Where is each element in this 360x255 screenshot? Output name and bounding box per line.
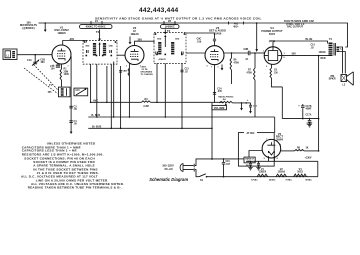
wire T2 to V2 grid xyxy=(117,54,125,56)
B+ vertical from rectifier to screen and T4 xyxy=(318,56,320,151)
svg-text:60~AC: 60~AC xyxy=(165,167,173,171)
on-off switch S1 xyxy=(199,174,206,177)
svg-text:.005: .005 xyxy=(217,91,222,93)
wire plug to rectifier xyxy=(195,159,238,166)
AC plug xyxy=(180,164,183,172)
svg-text:R8: R8 xyxy=(297,147,301,149)
svg-text:C15: C15 xyxy=(76,90,81,92)
svg-text:TO CHASSIS: TO CHASSIS xyxy=(141,73,154,76)
svg-text:470KΩ: 470KΩ xyxy=(159,58,166,61)
filter capacitor C17A 50MF xyxy=(309,119,311,121)
svg-text:7: 7 xyxy=(211,67,212,69)
svg-text:VOLUME: VOLUME xyxy=(214,107,225,110)
svg-text:+130V: +130V xyxy=(305,156,312,159)
svg-text:C14: C14 xyxy=(217,87,222,90)
V2 bottom leads xyxy=(107,62,129,129)
filter node line xyxy=(282,118,318,120)
svg-text:@455KC: @455KC xyxy=(165,26,175,29)
V4 cathode resistor R10 150 xyxy=(271,64,273,68)
svg-text:AT 90C: AT 90C xyxy=(246,132,254,135)
svg-text:470K: 470K xyxy=(234,61,240,64)
svg-text:3.2: 3.2 xyxy=(340,49,344,51)
svg-text:RADIO-PHONO: RADIO-PHONO xyxy=(218,95,233,98)
svg-text:C9B: C9B xyxy=(244,48,249,51)
tuning capacitor C1A xyxy=(34,55,36,62)
electrolytic on heater line 1 xyxy=(250,161,252,163)
svg-text:12BA6: 12BA6 xyxy=(277,170,285,173)
filter capacitor C17B 40MF xyxy=(302,108,304,118)
T2 tuning arrow xyxy=(99,45,101,57)
svg-text:.02: .02 xyxy=(185,71,189,73)
svg-text:(@800KC): (@800KC) xyxy=(22,26,34,30)
svg-text:2: 2 xyxy=(53,65,54,67)
capacitor C12 on T3 B+ lead xyxy=(181,70,184,72)
svg-text:2.2M: 2.2M xyxy=(143,105,148,108)
svg-text:442,443,444: 442,443,444 xyxy=(139,7,179,14)
screen bypass capacitor C6 xyxy=(119,71,122,73)
IF transformer T2 can xyxy=(83,41,117,65)
tube V5 xyxy=(262,139,281,158)
svg-text:40MF: 40MF xyxy=(306,108,312,111)
T2 terminals xyxy=(86,55,88,57)
svg-text:1K: 1K xyxy=(306,147,309,149)
grid resistor R7 470K xyxy=(254,52,256,54)
svg-text:34VAC: 34VAC xyxy=(269,179,276,182)
ground stub near switch line xyxy=(220,158,222,160)
IF transformer T3 can xyxy=(154,33,186,64)
wire V1 plate to T2 xyxy=(63,41,87,46)
arrow into V2 xyxy=(129,37,131,43)
svg-text:1: 1 xyxy=(284,53,286,55)
warm up resistor box xyxy=(244,157,255,163)
svg-text:T1: T1 xyxy=(49,84,53,87)
V4 screen wire to B+ xyxy=(282,55,319,57)
wire V2 plate to T3 xyxy=(135,41,155,45)
svg-text:C17B: C17B xyxy=(306,106,312,108)
svg-text:7: 7 xyxy=(68,66,69,68)
svg-text:4: 4 xyxy=(277,157,279,160)
V4 plate lead blue wire to T4 xyxy=(273,41,328,47)
wire T3 to V3 xyxy=(186,52,205,54)
svg-text:GND: GND xyxy=(109,46,114,48)
svg-text:GND: GND xyxy=(157,39,162,41)
svg-text:C8: C8 xyxy=(274,70,278,72)
wire V4 area down to filter node xyxy=(281,87,283,119)
svg-text:455: 455 xyxy=(48,91,53,94)
resistor R3 2.2M on AVC bus xyxy=(142,101,151,104)
svg-text:C17A: C17A xyxy=(306,114,312,117)
svg-text:7: 7 xyxy=(140,66,141,68)
T3 terminals xyxy=(156,54,158,56)
svg-text:.019: .019 xyxy=(197,40,202,43)
svg-text:SENSITIVITY AND STAGE GAINS AT: SENSITIVITY AND STAGE GAINS AT ½ WATT OU… xyxy=(95,16,262,20)
svg-text:R7: R7 xyxy=(248,70,252,72)
B- to rectifier box lead xyxy=(274,117,276,133)
heater V1 12BE6 xyxy=(257,174,268,177)
line capacitor C16 .047 xyxy=(223,158,225,160)
T3 internal capacitors xyxy=(156,52,158,55)
svg-text:R3: R3 xyxy=(144,98,148,101)
svg-text:50C5: 50C5 xyxy=(269,32,276,36)
svg-text:1300Ω: 1300Ω xyxy=(319,52,326,54)
volume control R4 xyxy=(220,101,233,103)
ground arrow below C4 xyxy=(70,128,72,133)
svg-text:T2: T2 xyxy=(96,30,100,34)
svg-text:85VAC: 85VAC xyxy=(305,179,312,182)
tube V3 xyxy=(205,46,224,65)
svg-text:C1A: C1A xyxy=(27,59,32,62)
svg-text:C16: C16 xyxy=(226,161,231,163)
heater supply line xyxy=(268,156,274,161)
svg-text:B+ BUS: B+ BUS xyxy=(92,125,102,128)
svg-text:104: 104 xyxy=(51,68,56,71)
svg-text:.01: .01 xyxy=(245,58,249,61)
svg-text:AVC: AVC xyxy=(93,100,98,103)
svg-text:.02: .02 xyxy=(311,47,315,49)
resistor R1 22M xyxy=(61,64,63,69)
svg-text:12BE6: 12BE6 xyxy=(57,31,66,35)
svg-text:260: 260 xyxy=(41,61,46,64)
svg-text:GND: GND xyxy=(175,39,180,41)
wire V1 cathode down xyxy=(70,56,72,128)
svg-text:50MF: 50MF xyxy=(307,123,313,125)
rectifier output resistor R8 xyxy=(281,150,295,152)
svg-text:12BA6: 12BA6 xyxy=(130,32,139,36)
thermal box around V5 xyxy=(238,133,274,167)
alignment box @455KC xyxy=(161,25,180,29)
T2 primary winding xyxy=(93,43,96,56)
wire plug to switch xyxy=(195,170,199,177)
svg-text:R6: R6 xyxy=(234,60,238,62)
svg-text:105-125V: 105-125V xyxy=(162,163,174,167)
B- bus xyxy=(88,116,274,118)
svg-text:L3: L3 xyxy=(343,85,346,87)
alignment box 600KC TO 455KC xyxy=(80,25,113,29)
wire antenna to V1 grid xyxy=(17,54,52,56)
svg-text:70VAC: 70VAC xyxy=(285,179,292,182)
T4 secondary leads to speaker xyxy=(339,47,345,74)
svg-text:1: 1 xyxy=(218,67,219,69)
svg-text:7: 7 xyxy=(263,51,264,53)
coupling capacitor C9B .01 xyxy=(248,51,250,55)
svg-text:Schematic Diagram: Schematic Diagram xyxy=(149,177,188,182)
svg-text:C14: C14 xyxy=(311,44,316,47)
svg-text:1: 1 xyxy=(280,145,281,147)
AVC filter cap C13 xyxy=(245,102,247,104)
capacitor C14 .005 xyxy=(213,93,216,95)
svg-text:50C5: 50C5 xyxy=(297,170,303,173)
svg-text:600KC TO 455KC: 600KC TO 455KC xyxy=(86,26,106,29)
svg-text:2: 2 xyxy=(266,66,267,68)
svg-text:150: 150 xyxy=(274,72,279,74)
svg-text:+: + xyxy=(247,98,249,102)
svg-text:READING TAKEN BETWEEN TUBE PIN: READING TAKEN BETWEEN TUBE PIN TERMINALS… xyxy=(28,186,123,190)
heater V4 50C5 xyxy=(294,174,307,177)
arrow into T3 xyxy=(164,29,166,32)
tap arrow to V4 grid xyxy=(256,23,258,49)
svg-text:450~: 450~ xyxy=(233,24,239,28)
electrolytic cap and ground near R7 xyxy=(250,103,252,105)
wire plug line into warm-up resistor xyxy=(238,158,244,160)
svg-text:SPKR: SPKR xyxy=(329,78,336,81)
V3 ground arrow xyxy=(221,65,223,69)
heater V2 12BA6 xyxy=(276,174,287,177)
svg-text:L1: L1 xyxy=(6,55,9,58)
T3 secondary winding xyxy=(171,42,174,54)
svg-text:R2: R2 xyxy=(124,71,128,73)
V3 output lead down xyxy=(214,65,216,103)
svg-text:7: 7 xyxy=(266,139,267,141)
T3 primary winding xyxy=(158,42,161,54)
svg-text:B- BUS: B- BUS xyxy=(92,114,101,117)
svg-text:1000: 1000 xyxy=(64,73,70,76)
svg-text:.047: .047 xyxy=(226,163,231,166)
signal injection arrow at V1 grid xyxy=(44,23,46,30)
svg-text:RED: RED xyxy=(321,57,326,60)
svg-text:GND: GND xyxy=(85,46,90,48)
svg-text:BLUE: BLUE xyxy=(306,38,313,41)
svg-text:12BE6: 12BE6 xyxy=(259,170,267,173)
capacitor C3 .05 xyxy=(69,106,72,108)
tube V4 xyxy=(264,47,282,65)
T3 tuning arrow xyxy=(164,37,166,47)
svg-text:+: + xyxy=(298,104,300,108)
speaker L3 xyxy=(341,75,347,82)
T2 secondary winding xyxy=(103,43,106,56)
svg-text:C12: C12 xyxy=(185,69,190,71)
svg-text:T4: T4 xyxy=(329,38,333,41)
electrolytic on heater line 2 xyxy=(258,161,260,163)
svg-text:3: 3 xyxy=(264,158,266,160)
tube V1 xyxy=(52,45,71,64)
svg-text:57VAC: 57VAC xyxy=(251,179,258,182)
wire V3 plate to C9B xyxy=(224,52,248,54)
gang coupling dashed link xyxy=(24,65,58,94)
T3 bottom leads xyxy=(157,63,182,128)
svg-text:5: 5 xyxy=(207,66,208,68)
ground at volume end xyxy=(241,102,243,104)
T4 primary bottom to B+ line xyxy=(319,55,331,57)
svg-text:1: 1 xyxy=(126,66,127,68)
T2 internal capacitors xyxy=(87,50,89,53)
trimmer C15 xyxy=(74,88,88,96)
arrow into T2 xyxy=(99,30,101,39)
capacitor C10 xyxy=(57,64,59,65)
B+ bus xyxy=(88,127,212,129)
svg-text:.05: .05 xyxy=(74,108,78,111)
svg-text:VAC OUTPUT: VAC OUTPUT xyxy=(287,26,304,29)
loop antenna L1 xyxy=(3,49,17,60)
svg-text:.05: .05 xyxy=(74,123,78,126)
tube V2 xyxy=(125,46,144,65)
V4 grid pin dot xyxy=(264,52,265,53)
AVC bus xyxy=(91,101,224,103)
measurement line xyxy=(39,23,348,47)
T2 bottom leads xyxy=(91,64,112,128)
svg-text:5: 5 xyxy=(284,57,286,59)
plate capacitor C9C xyxy=(186,33,215,46)
svg-text:30V: 30V xyxy=(292,53,297,56)
diode load resistor R6 470K xyxy=(231,53,233,58)
svg-text:470K: 470K xyxy=(247,71,253,74)
cathode resistor R2 xyxy=(128,68,129,76)
capacitor C4 .05 xyxy=(69,121,72,123)
B+ down lead to power xyxy=(211,103,213,159)
svg-text:S1: S1 xyxy=(200,179,204,182)
